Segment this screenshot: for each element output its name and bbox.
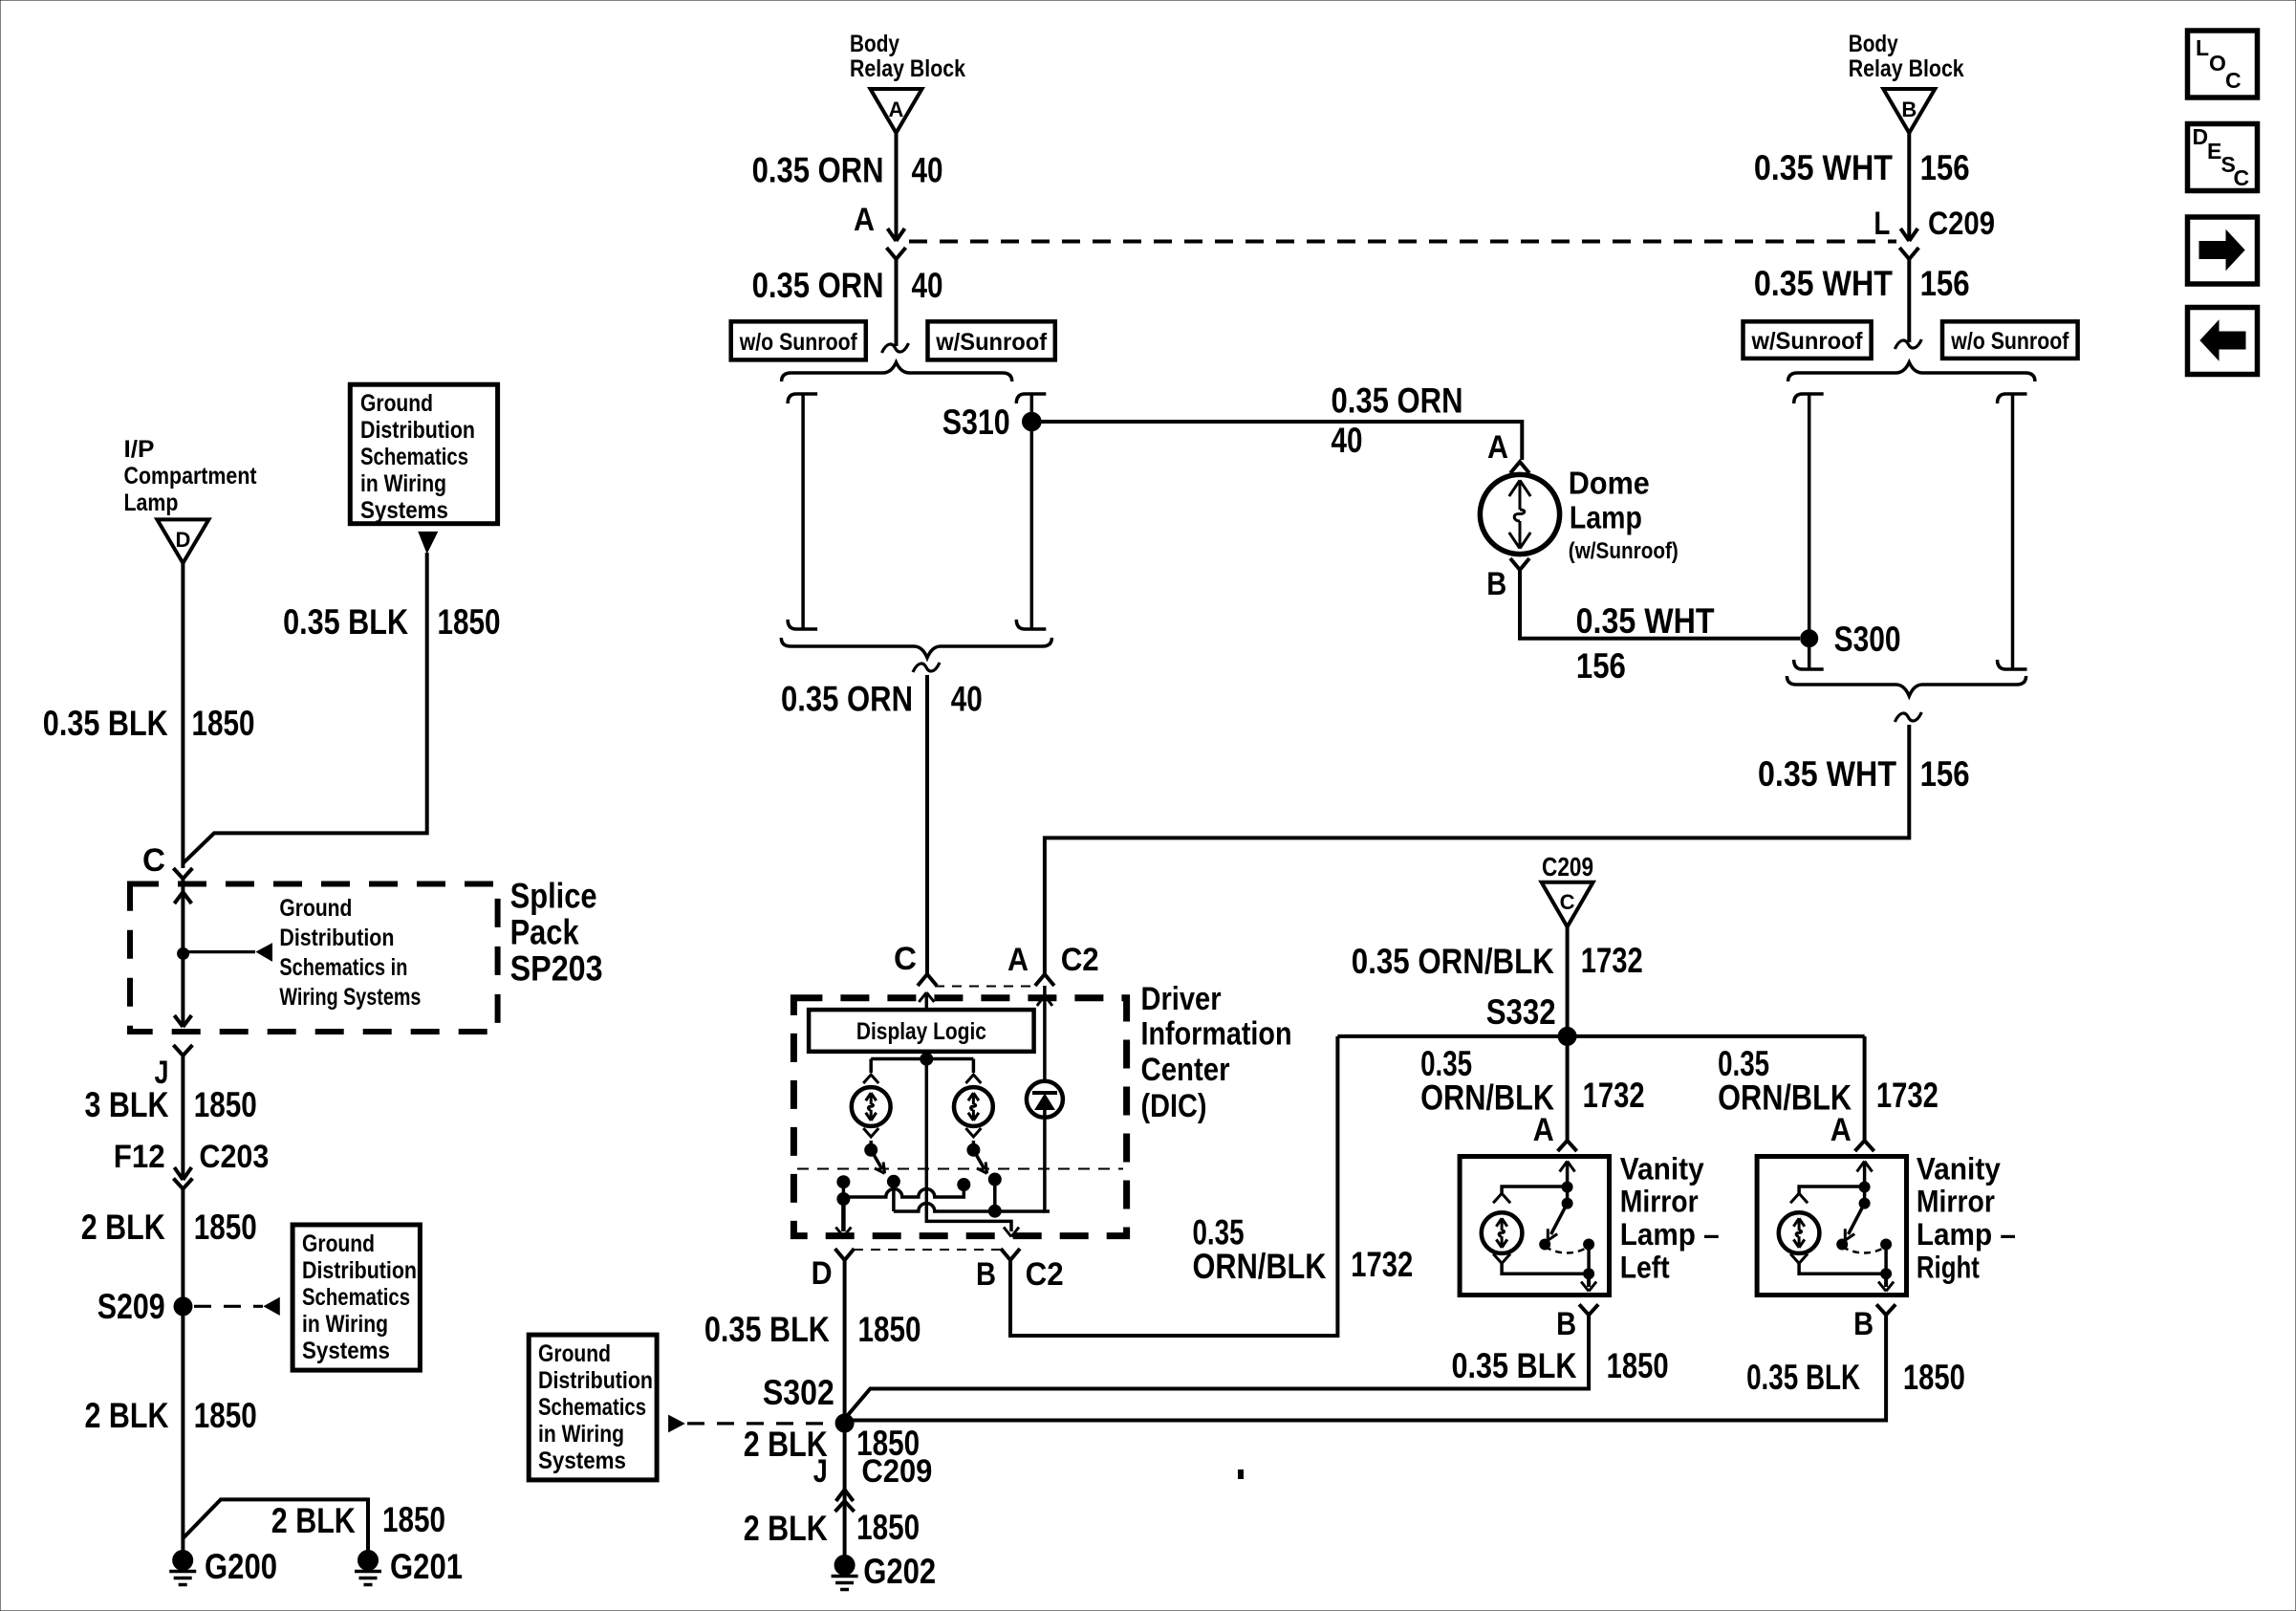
- wire lamp bottom to B node (vanity mirror lamp left): [1502, 1263, 1589, 1274]
- wire contact bus B (to diode): [894, 1182, 1045, 1211]
- switch travel dashed arc (vanity mirror lamp right): [1842, 1247, 1886, 1253]
- pin chevron C (DIC): [918, 974, 937, 986]
- svg-text:40: 40: [1332, 421, 1363, 460]
- node junction under Display Logic: [921, 1053, 933, 1065]
- svg-text:Systems: Systems: [360, 497, 448, 524]
- svg-text:156: 156: [1920, 148, 1970, 187]
- switch contact open (vanity mirror lamp left): [1540, 1239, 1550, 1250]
- ground G201: [358, 1551, 379, 1571]
- arrow down to B pin (vanity mirror lamp right): [1884, 1274, 1888, 1287]
- wire S332 bus to vanity right A: [1863, 1036, 1867, 1141]
- svg-text:Driver: Driver: [1141, 981, 1222, 1017]
- svg-text:0.35 WHT: 0.35 WHT: [1576, 601, 1715, 641]
- contact dot on bus A right: [958, 1179, 970, 1191]
- connector triangle A (Body Relay Block): [871, 89, 922, 133]
- wire vanity left B to S302: [845, 1315, 1590, 1419]
- svg-text:Right: Right: [1917, 1251, 1980, 1285]
- splice S300: [1801, 630, 1818, 647]
- splice S302: [835, 1414, 854, 1432]
- svg-text:C209: C209: [861, 1453, 932, 1490]
- wire branch to G201: [183, 1499, 368, 1550]
- wire vanity right B to S302: [845, 1315, 1887, 1420]
- svg-text:S300: S300: [1834, 620, 1901, 659]
- svg-text:1850: 1850: [192, 704, 255, 743]
- break squiggle below left underbrace: [913, 663, 940, 672]
- svg-text:Distribution: Distribution: [302, 1257, 417, 1284]
- svg-text:0.35 BLK: 0.35 BLK: [704, 1310, 830, 1349]
- in-line connector C209 chevron (A): [887, 248, 906, 259]
- svg-text:Information: Information: [1141, 1016, 1292, 1053]
- svg-text:0.35 WHT: 0.35 WHT: [1754, 148, 1893, 187]
- svg-text:Ground: Ground: [302, 1230, 375, 1257]
- switch 1 blade: [871, 1150, 882, 1169]
- svg-text:S209: S209: [97, 1287, 165, 1326]
- wire stub to lamp 1: [869, 1059, 873, 1074]
- wire feed to lamp top (vanity mirror lamp left): [1502, 1186, 1568, 1193]
- bus bracket w/Sunroof (left group): [1016, 394, 1046, 403]
- wire lamp 2 to switch 2: [965, 1128, 981, 1137]
- wire feed to lamp top (vanity mirror lamp right): [1799, 1186, 1865, 1193]
- svg-text:1850: 1850: [856, 1508, 920, 1547]
- wire S310 to dome lamp A: [1031, 422, 1522, 460]
- svg-text:Splice: Splice: [510, 877, 597, 916]
- wire lamp bus to B pin (inside DIC): [926, 1059, 1011, 1231]
- wire S332 to vanity left A: [1566, 1036, 1570, 1141]
- svg-text:J: J: [813, 1453, 828, 1490]
- svg-text:Ground: Ground: [360, 390, 433, 417]
- switch 1 contact: [887, 1175, 899, 1187]
- ground G200: [173, 1551, 193, 1571]
- svg-text:1732: 1732: [1876, 1076, 1939, 1115]
- arrow up from feed (vanity mirror lamp left): [1566, 1164, 1570, 1187]
- svg-text:Systems: Systems: [302, 1338, 390, 1364]
- svg-text:Schematics: Schematics: [360, 444, 468, 470]
- svg-text:G201: G201: [390, 1547, 463, 1586]
- vanity mirror lamp left box: [1460, 1157, 1609, 1295]
- svg-text:1850: 1850: [1903, 1358, 1965, 1397]
- switch 1 pivot: [865, 1143, 877, 1156]
- svg-text:w/o Sunroof: w/o Sunroof: [1950, 328, 2069, 355]
- svg-text:Distribution: Distribution: [360, 417, 475, 444]
- lamp bulb (vanity mirror lamp right): [1779, 1212, 1820, 1253]
- in-line connector C203 chevron: [173, 1179, 192, 1189]
- note box Ground Distribution (S302): [529, 1335, 657, 1480]
- svg-text:1732: 1732: [1581, 941, 1643, 980]
- DIC lamp 2: [954, 1087, 993, 1126]
- svg-text:Mirror: Mirror: [1620, 1185, 1699, 1219]
- dashed leader line (S209 note): [194, 1305, 263, 1308]
- B node junction (vanity mirror lamp right): [1881, 1269, 1892, 1279]
- arrow down to B pin (vanity mirror lamp left): [1587, 1274, 1591, 1287]
- nav box LOC: [2188, 31, 2258, 98]
- svg-text:B: B: [1556, 1306, 1576, 1342]
- svg-text:G200: G200: [205, 1547, 277, 1586]
- in-line connector C209 chevron (J): [835, 1501, 855, 1512]
- svg-text:L: L: [2196, 35, 2209, 60]
- svg-text:A: A: [1533, 1112, 1554, 1148]
- nav box DESC: [2188, 124, 2258, 191]
- svg-text:Pack: Pack: [510, 913, 579, 952]
- svg-text:Body: Body: [850, 31, 899, 57]
- pin chevron B C2 (DIC): [1001, 1249, 1020, 1260]
- leader arrow down (top note): [419, 532, 438, 553]
- svg-text:1732: 1732: [1351, 1245, 1413, 1284]
- dashed connector line C209: [909, 240, 1896, 244]
- svg-text:Distribution: Distribution: [538, 1367, 653, 1394]
- pin chevron A C2 (DIC): [1035, 974, 1054, 986]
- svg-text:Schematics: Schematics: [538, 1394, 646, 1421]
- svg-text:S332: S332: [1486, 992, 1556, 1032]
- svg-text:1850: 1850: [438, 602, 501, 642]
- svg-text:in Wiring: in Wiring: [538, 1421, 624, 1448]
- svg-text:Ground: Ground: [279, 895, 352, 922]
- lamp bulb (vanity mirror lamp left): [1482, 1212, 1523, 1253]
- option box w/o Sunroof (left): [731, 321, 866, 359]
- switch blade (vanity mirror lamp right): [1849, 1204, 1865, 1234]
- in-line connector C209 arrow (J): [836, 1490, 854, 1501]
- svg-text:A: A: [889, 98, 904, 121]
- svg-text:0.35 WHT: 0.35 WHT: [1754, 264, 1893, 303]
- DIC dashed box: [793, 998, 1126, 1236]
- svg-text:156: 156: [1920, 264, 1970, 303]
- svg-text:0.35 BLK: 0.35 BLK: [1746, 1358, 1860, 1397]
- in-line connector C209 chevron (L): [1899, 248, 1918, 259]
- switch blade (vanity mirror lamp left): [1551, 1204, 1568, 1234]
- svg-text:0.35 BLK: 0.35 BLK: [1452, 1346, 1577, 1385]
- wire A triangle to connector C209: [895, 133, 899, 239]
- svg-text:40: 40: [912, 151, 943, 190]
- vanity mirror lamp right box: [1757, 1157, 1906, 1295]
- pin chevron B (vanity mirror lamp left): [1579, 1304, 1598, 1315]
- pin chevron B (vanity mirror lamp right): [1876, 1304, 1895, 1315]
- svg-text:2 BLK: 2 BLK: [85, 1396, 169, 1435]
- svg-text:1850: 1850: [194, 1396, 257, 1435]
- leader arrow (SP203 note): [257, 944, 272, 961]
- lamp chevrons (vanity mirror lamp left): [1493, 1193, 1510, 1203]
- svg-text:Display Logic: Display Logic: [856, 1018, 986, 1045]
- svg-text:(w/Sunroof): (w/Sunroof): [1569, 538, 1679, 564]
- svg-text:in Wiring: in Wiring: [302, 1311, 388, 1338]
- svg-text:S310: S310: [942, 403, 1010, 442]
- wire through SP203: [181, 879, 184, 1027]
- underbrace options (right group): [1787, 676, 2025, 696]
- svg-text:Distribution: Distribution: [279, 925, 394, 951]
- svg-text:0.35 BLK: 0.35 BLK: [43, 704, 168, 743]
- splice pack SP203 dashed box: [130, 884, 498, 1033]
- splice S310: [1023, 412, 1042, 431]
- dashed pin tie line top (DIC): [935, 986, 1037, 988]
- switch contact open (vanity mirror lamp right): [1837, 1239, 1848, 1250]
- svg-text:Relay Block: Relay Block: [850, 55, 965, 82]
- svg-text:3 BLK: 3 BLK: [85, 1085, 169, 1124]
- svg-text:D: D: [2193, 124, 2209, 149]
- svg-text:C: C: [142, 842, 165, 879]
- arrow down to D pin (inside DIC): [841, 1199, 846, 1231]
- node junction on bus A (D): [837, 1193, 850, 1206]
- wire dome lamp B to S300: [1520, 570, 1800, 639]
- node junction in SP203: [178, 947, 189, 959]
- svg-text:Left: Left: [1620, 1251, 1670, 1285]
- wire lamp feed bus (inside DIC): [871, 1057, 973, 1061]
- svg-text:C2: C2: [1026, 1256, 1064, 1293]
- svg-text:0.35 ORN: 0.35 ORN: [1332, 381, 1463, 421]
- svg-text:40: 40: [912, 266, 943, 305]
- svg-text:C2: C2: [1061, 942, 1099, 978]
- svg-text:w/Sunroof: w/Sunroof: [935, 329, 1048, 356]
- connector triangle D (I/P lamp): [157, 519, 208, 563]
- svg-text:Mirror: Mirror: [1917, 1185, 1995, 1219]
- splice S209: [174, 1297, 192, 1316]
- svg-text:Body: Body: [1849, 31, 1898, 57]
- svg-text:Systems: Systems: [538, 1448, 626, 1474]
- svg-text:in Wiring: in Wiring: [360, 470, 446, 497]
- bus bracket w/o Sunroof (right group): [1998, 394, 2027, 403]
- DIC diode (LED): [1027, 1081, 1063, 1118]
- svg-text:F12: F12: [114, 1139, 165, 1175]
- wire connector to option merge (B): [1907, 259, 1911, 342]
- svg-text:A: A: [1487, 429, 1508, 466]
- svg-text:Vanity: Vanity: [1620, 1151, 1704, 1186]
- arrow up from feed (vanity mirror lamp right): [1863, 1164, 1867, 1187]
- svg-text:w/Sunroof: w/Sunroof: [1751, 328, 1864, 355]
- feed junction dots (vanity mirror lamp right): [1859, 1182, 1870, 1192]
- svg-text:A: A: [1830, 1112, 1852, 1148]
- svg-text:C: C: [1560, 890, 1575, 914]
- svg-text:2 BLK: 2 BLK: [81, 1208, 165, 1247]
- DIC lamp 1: [852, 1087, 891, 1126]
- wire lamp bottom to B node (vanity mirror lamp right): [1799, 1263, 1886, 1274]
- svg-text:Wiring Systems: Wiring Systems: [279, 984, 421, 1011]
- pin chevron D (DIC): [835, 1249, 855, 1260]
- svg-text:0.35 ORN: 0.35 ORN: [781, 680, 913, 719]
- svg-text:A: A: [1007, 942, 1029, 978]
- note box Ground Distribution (S209): [292, 1225, 420, 1370]
- svg-text:D: D: [175, 528, 190, 552]
- switch 2 contact: [988, 1173, 1001, 1186]
- svg-text:0.35 ORN: 0.35 ORN: [752, 266, 884, 305]
- feed junction dots (vanity mirror lamp left): [1562, 1182, 1572, 1192]
- switch contact to B (vanity mirror lamp right): [1881, 1239, 1892, 1250]
- svg-text:E: E: [2207, 139, 2221, 163]
- break squiggle below right underbrace: [1895, 712, 1921, 722]
- option box w/o Sunroof (right): [1942, 321, 2078, 359]
- wire S209 to G200: [181, 1306, 184, 1550]
- wire connector to option merge (A): [895, 259, 899, 346]
- svg-text:Center: Center: [1141, 1052, 1230, 1088]
- stray mark: [1239, 1470, 1244, 1479]
- break squiggle at option merge (B): [1895, 339, 1921, 349]
- wire C triangle to S332: [1566, 926, 1570, 1036]
- pin chevron A (vanity mirror lamp right): [1855, 1141, 1874, 1151]
- switch travel dashed arc (vanity mirror lamp left): [1545, 1247, 1589, 1253]
- pin chevron J (below SP203): [173, 1045, 192, 1056]
- svg-text:Lamp: Lamp: [124, 490, 179, 516]
- overbrace options (right group): [1788, 362, 2035, 381]
- leader arrow (S209 note): [264, 1298, 279, 1316]
- svg-text:C203: C203: [199, 1139, 269, 1175]
- node junction on bus B: [988, 1205, 1001, 1217]
- arrow up to C pin (inside DIC): [925, 995, 929, 1011]
- svg-text:B: B: [1853, 1306, 1874, 1342]
- svg-text:156: 156: [1920, 754, 1970, 794]
- svg-text:O: O: [2209, 51, 2226, 76]
- svg-text:Schematics: Schematics: [302, 1284, 410, 1311]
- svg-text:1850: 1850: [1607, 1346, 1669, 1385]
- svg-text:B: B: [1486, 566, 1506, 602]
- svg-text:1850: 1850: [858, 1310, 921, 1349]
- svg-text:ORN/BLK: ORN/BLK: [1193, 1247, 1327, 1286]
- wire lamp 1 to switch 1: [863, 1128, 878, 1137]
- svg-text:1850: 1850: [194, 1085, 257, 1124]
- wire switch 2 contact to bus B: [993, 1180, 997, 1212]
- wire SP203 to connector C203: [181, 1056, 184, 1178]
- svg-text:0.35 BLK: 0.35 BLK: [283, 602, 408, 642]
- wire B C2 pin to S332 bus: [1010, 1036, 1337, 1336]
- svg-text:2 BLK: 2 BLK: [744, 1509, 828, 1548]
- wire A C2 pin to diode: [1043, 986, 1047, 1081]
- contact stub D side: [837, 1176, 850, 1188]
- dome lamp bulb: [1480, 474, 1559, 554]
- wire S302 to G202: [843, 1424, 847, 1557]
- arrow down to B C2 pin (inside DIC): [1004, 1228, 1019, 1237]
- leader arrow (S302 note): [669, 1416, 684, 1432]
- svg-text:D: D: [812, 1255, 833, 1292]
- dashed leader line (S302 note): [687, 1422, 833, 1425]
- svg-text:S302: S302: [763, 1373, 834, 1412]
- svg-text:Lamp –: Lamp –: [1620, 1217, 1720, 1252]
- ground G202: [834, 1556, 855, 1576]
- wire D triangle to C: [181, 563, 184, 868]
- svg-text:Schematics in: Schematics in: [279, 954, 407, 981]
- svg-text:0.35 WHT: 0.35 WHT: [1758, 754, 1896, 794]
- svg-text:C209: C209: [1542, 852, 1593, 882]
- svg-text:Ground: Ground: [538, 1340, 611, 1367]
- wire D pin to S302: [843, 1260, 847, 1414]
- nav box back arrow: [2188, 308, 2258, 375]
- svg-text:(DIC): (DIC): [1141, 1088, 1207, 1124]
- connector triangle C (C209): [1542, 882, 1593, 927]
- pin chevron A (vanity mirror lamp left): [1558, 1141, 1577, 1151]
- svg-text:C: C: [2225, 68, 2242, 93]
- wire C203 to S209: [181, 1189, 184, 1298]
- pin chevron B (dome lamp): [1510, 558, 1529, 570]
- svg-text:2 BLK: 2 BLK: [271, 1501, 356, 1540]
- svg-text:I/P: I/P: [124, 436, 155, 463]
- svg-text:40: 40: [951, 680, 983, 719]
- svg-text:0.35 ORN: 0.35 ORN: [752, 151, 884, 190]
- bus bracket w/Sunroof (right group): [1794, 394, 1824, 403]
- switch contact to B (vanity mirror lamp left): [1584, 1239, 1594, 1250]
- Display Logic box: [809, 1010, 1034, 1052]
- thin dashed gang line (DIC): [797, 1168, 1123, 1170]
- wire S332 bus: [1337, 1034, 1864, 1038]
- connector triangle B (Body Relay Block): [1883, 89, 1935, 133]
- svg-text:Lamp: Lamp: [1570, 499, 1642, 534]
- in-line connector C203 arrow: [174, 1167, 191, 1180]
- svg-text:A: A: [854, 202, 875, 238]
- option box w/Sunroof (right): [1744, 321, 1872, 359]
- svg-text:C: C: [2234, 165, 2250, 190]
- svg-text:w/o Sunroof: w/o Sunroof: [739, 329, 857, 356]
- svg-text:C209: C209: [1928, 206, 1995, 242]
- switch 2 blade: [973, 1150, 985, 1169]
- wire B triangle to connector C209: [1907, 133, 1911, 239]
- svg-text:1850: 1850: [382, 1500, 445, 1539]
- svg-text:Dome: Dome: [1569, 466, 1650, 501]
- svg-text:G202: G202: [863, 1552, 936, 1591]
- overbrace options (left group): [782, 362, 1012, 381]
- svg-text:1732: 1732: [1583, 1076, 1645, 1115]
- svg-text:0.35 ORN/BLK: 0.35 ORN/BLK: [1352, 942, 1554, 981]
- pin chevron A (dome lamp): [1510, 462, 1529, 473]
- nav box forward arrow: [2188, 217, 2258, 284]
- svg-text:Compartment: Compartment: [124, 463, 258, 490]
- break squiggle at option merge (A): [882, 343, 909, 353]
- wire top note to C junction: [183, 553, 426, 863]
- svg-text:Lamp –: Lamp –: [1917, 1217, 2016, 1252]
- wire left group to DIC pin C: [925, 675, 929, 974]
- wire contact bus A (to D): [843, 1188, 964, 1197]
- option box w/Sunroof (left): [928, 321, 1055, 359]
- svg-text:156: 156: [1576, 646, 1626, 686]
- pin chevron C (SP203): [173, 868, 192, 879]
- svg-text:Vanity: Vanity: [1917, 1151, 2001, 1186]
- svg-text:C: C: [894, 941, 917, 977]
- svg-text:SP203: SP203: [510, 949, 603, 989]
- lamp chevrons (vanity mirror lamp right): [1790, 1193, 1808, 1203]
- wire stub to lamp 2: [972, 1059, 976, 1074]
- svg-text:B: B: [976, 1256, 996, 1293]
- in-line connector C209 arrow (L): [1900, 229, 1917, 241]
- wire right group to DIC pin A C2: [1045, 725, 1909, 974]
- leader line (SP203 note): [184, 950, 255, 953]
- dashed pin tie line bottom (DIC): [854, 1249, 1001, 1251]
- wire diode to contact bus B: [1045, 1118, 1050, 1211]
- underbrace options (left group): [781, 638, 1051, 658]
- switch 2 pivot: [967, 1143, 980, 1156]
- svg-text:1850: 1850: [194, 1208, 257, 1247]
- in-line connector C209 arrow (A): [888, 229, 905, 241]
- svg-text:Relay Block: Relay Block: [1849, 55, 1964, 82]
- B node junction (vanity mirror lamp left): [1584, 1269, 1594, 1279]
- note box Ground Distribution (top): [350, 384, 497, 524]
- bus bracket w/o Sunroof (left group): [788, 394, 817, 403]
- svg-text:B: B: [1901, 98, 1917, 121]
- svg-text:L: L: [1874, 206, 1890, 242]
